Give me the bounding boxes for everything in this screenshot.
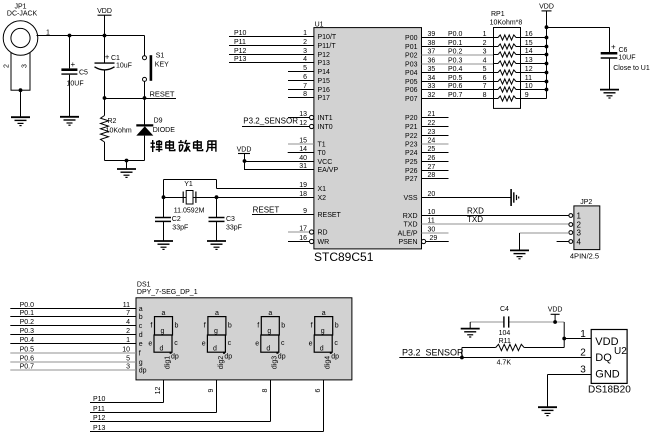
RP1 resistor element 4 <box>494 57 547 66</box>
switch S1 KEY <box>143 55 151 81</box>
U1 pin 32 (P07) <box>405 92 493 103</box>
JP2 pin 4 <box>569 237 582 246</box>
wire to S1 <box>144 36 146 56</box>
svg-text:38: 38 <box>428 40 436 47</box>
svg-text:PSEN: PSEN <box>398 239 417 246</box>
svg-text:b: b <box>139 314 143 321</box>
svg-text:32: 32 <box>428 92 436 99</box>
svg-text:RESET: RESET <box>150 90 175 99</box>
svg-text:22: 22 <box>428 120 436 127</box>
svg-text:15: 15 <box>525 40 533 47</box>
svg-text:P27: P27 <box>405 176 418 183</box>
U1 pin 9 (RESET) <box>252 206 342 219</box>
svg-text:+: + <box>71 60 76 69</box>
svg-text:DPY_7-SEG_DP_1: DPY_7-SEG_DP_1 <box>137 289 198 296</box>
svg-text:14: 14 <box>299 146 307 153</box>
svg-text:18: 18 <box>299 191 307 198</box>
JP2 pin 2 <box>569 220 582 229</box>
svg-text:3: 3 <box>577 228 582 237</box>
svg-text:P0.4: P0.4 <box>448 66 463 73</box>
svg-text:DS18B20: DS18B20 <box>588 384 631 395</box>
svg-text:P13: P13 <box>234 56 247 63</box>
junction VDD / C4 wire <box>553 320 557 324</box>
DS1 pin 10 (segment f) <box>10 346 140 357</box>
svg-text:P0.5: P0.5 <box>20 347 35 354</box>
svg-text:24: 24 <box>428 137 436 144</box>
svg-text:P0.6: P0.6 <box>20 356 35 363</box>
svg-text:c: c <box>334 340 338 347</box>
U1 pin 1 (P10/T) <box>229 30 337 41</box>
U1 pin 40 (VCC) <box>244 155 332 166</box>
svg-text:d: d <box>139 332 143 339</box>
wire net VDD-in from JP1 pin1 <box>37 35 145 37</box>
svg-text:12: 12 <box>299 120 307 127</box>
U1 pin 28 (P27) <box>405 172 448 183</box>
VDD power symbol (top left) <box>97 8 112 15</box>
svg-text:P22: P22 <box>405 133 418 140</box>
svg-text:10: 10 <box>428 209 436 216</box>
wire VDD bus (RP1) <box>546 11 548 99</box>
U1 pin 24 (P23) <box>405 137 448 148</box>
svg-text:dig2: dig2 <box>218 356 225 369</box>
svg-text:P01: P01 <box>405 44 418 51</box>
svg-text:6: 6 <box>303 74 307 81</box>
svg-text:1: 1 <box>483 31 487 38</box>
svg-text:31: 31 <box>299 163 307 170</box>
svg-text:VDD: VDD <box>237 147 252 154</box>
svg-text:RESET: RESET <box>253 206 280 215</box>
ground (C4) <box>461 329 480 337</box>
U1 pin 18 (X2) <box>299 191 326 202</box>
ground (JP2 pin3) <box>510 250 529 258</box>
RP1 resistor element 7 <box>494 83 547 92</box>
DS1 pin 11 (segment a) <box>10 302 142 313</box>
svg-text:dig4: dig4 <box>325 356 332 369</box>
display DS1 body <box>136 298 352 380</box>
svg-text:4PIN/2.5: 4PIN/2.5 <box>570 251 599 260</box>
svg-text:14: 14 <box>525 48 533 55</box>
svg-text:S1: S1 <box>156 53 165 60</box>
DC jack JP1 symbol <box>3 21 38 91</box>
svg-text:C4: C4 <box>500 306 509 313</box>
svg-text:104: 104 <box>499 330 511 337</box>
svg-text:9: 9 <box>525 92 529 99</box>
U1 pin 35 (P04) <box>405 66 493 77</box>
RP1 resistor element 1 <box>494 31 547 40</box>
wire VDD corner to pin1/R11 <box>563 322 565 348</box>
svg-text:DC-JACK: DC-JACK <box>7 11 38 18</box>
U1 pin 4 (P13) <box>229 56 330 67</box>
svg-text:C2: C2 <box>172 216 181 223</box>
connector JP2 body <box>574 206 600 250</box>
svg-text:dp: dp <box>139 368 147 375</box>
svg-text:10: 10 <box>122 346 130 353</box>
capacitor C1 (polarized 10uF) <box>95 63 115 70</box>
svg-text:INT1: INT1 <box>318 115 333 122</box>
junction RP1 pin 16 to VDD bus <box>545 36 549 40</box>
U1 pin 23 (P22) <box>405 129 448 140</box>
junction at JP1 barrel bottom <box>19 88 23 92</box>
wire C6 to ground <box>609 58 611 90</box>
svg-text:b: b <box>335 323 339 330</box>
svg-text:39: 39 <box>428 31 436 38</box>
IC U1 STC89C51 body <box>314 28 422 249</box>
ground (R2/D9) <box>117 169 136 177</box>
svg-text:3: 3 <box>126 363 130 370</box>
svg-text:U2: U2 <box>614 346 627 357</box>
svg-text:3: 3 <box>303 48 307 55</box>
wire to C6 <box>609 27 611 52</box>
svg-text:C6: C6 <box>619 47 628 54</box>
svg-text:c: c <box>228 340 232 347</box>
junction RP1 pin 11 to VDD bus <box>545 80 549 84</box>
junction pin1 branch <box>562 337 566 341</box>
wire to C2 <box>163 197 165 217</box>
svg-text:5: 5 <box>303 65 307 72</box>
resistor R2 10Kohm <box>101 98 109 161</box>
junction C5 branch <box>68 34 72 38</box>
DS1 digit pin 6 wire to P13 <box>90 380 324 432</box>
svg-text:P02: P02 <box>405 53 418 60</box>
svg-text:GND: GND <box>595 369 620 381</box>
U1 pin 29 (PSEN) <box>398 235 448 246</box>
resistor R11 4.7K <box>462 344 564 350</box>
wire pin18 X2 / crystal <box>164 197 314 199</box>
ground (DS18B20) <box>538 407 557 415</box>
svg-text:4: 4 <box>303 56 307 63</box>
svg-text:P0.2: P0.2 <box>448 49 463 56</box>
svg-text:d: d <box>320 345 324 352</box>
DS1 pin 4 (segment c) <box>10 319 142 330</box>
U1 pin 36 (P03) <box>405 57 493 68</box>
DS1 digit pin 9 wire to P11 <box>90 380 217 413</box>
svg-text:Close to U1: Close to U1 <box>613 65 650 72</box>
U1 pin 31 (EA/VP) <box>244 163 338 174</box>
svg-text:P3.2_SENSOR: P3.2_SENSOR <box>402 347 464 357</box>
U1 pin 34 (P05) <box>405 75 493 86</box>
crystal Y1 11.0592M <box>183 191 196 205</box>
U1 pin 15 (T1) <box>288 137 326 148</box>
svg-text:d: d <box>160 345 164 352</box>
svg-text:P0.7: P0.7 <box>20 364 35 371</box>
svg-text:DIODE: DIODE <box>153 127 176 134</box>
svg-text:ALE/P: ALE/P <box>398 231 418 238</box>
RP1 resistor element 2 <box>494 40 547 49</box>
svg-text:16: 16 <box>525 31 533 38</box>
svg-text:25: 25 <box>428 146 436 153</box>
svg-text:4.7K: 4.7K <box>497 360 512 367</box>
wire to C3 <box>216 197 218 217</box>
svg-text:VDD: VDD <box>97 8 112 15</box>
svg-text:3: 3 <box>580 364 586 375</box>
svg-text:d: d <box>213 345 217 352</box>
svg-text:b: b <box>228 323 232 330</box>
wire to ground <box>126 161 128 170</box>
svg-text:dp: dp <box>224 353 232 360</box>
svg-text:6: 6 <box>483 75 487 82</box>
svg-text:33: 33 <box>428 83 436 90</box>
svg-text:g: g <box>139 360 143 367</box>
svg-text:33pF: 33pF <box>226 225 242 232</box>
DS1 digit dig2 graphic <box>202 310 232 369</box>
junction VDD/C1 branch <box>103 34 107 38</box>
RP1 resistor element 3 <box>494 48 547 57</box>
svg-text:P24: P24 <box>405 150 418 157</box>
wire C1 to RESET net <box>104 71 106 99</box>
junction RESET/S1/D9 <box>143 96 147 100</box>
svg-text:R11: R11 <box>499 338 511 345</box>
svg-text:C5: C5 <box>79 70 88 77</box>
svg-text:P05: P05 <box>405 79 418 86</box>
U1 pin 37 (P02) <box>405 48 493 59</box>
svg-text:11: 11 <box>428 217 435 224</box>
svg-text:P11: P11 <box>234 39 246 46</box>
DS1 pin 2 (segment d) <box>10 328 142 339</box>
ground (C2) <box>154 241 173 249</box>
DS1 pin 7 (segment b) <box>10 310 142 321</box>
svg-text:28: 28 <box>428 172 436 179</box>
U1 pin 16 (WR) <box>288 235 329 246</box>
RP1 resistor element 8 <box>494 92 547 101</box>
svg-text:27: 27 <box>428 164 436 171</box>
U1 pin 10 (RXD) <box>403 206 569 220</box>
svg-text:1: 1 <box>580 329 586 340</box>
svg-text:d: d <box>266 345 270 352</box>
JP2 pin 3 <box>569 228 582 237</box>
svg-text:+: + <box>611 43 616 52</box>
U1 pin 14 (T0) <box>288 146 326 157</box>
svg-text:c: c <box>139 323 143 330</box>
svg-text:11: 11 <box>123 302 130 309</box>
wire DS18B20 pin3 GND <box>548 375 592 408</box>
svg-text:P0.0: P0.0 <box>448 31 463 38</box>
junction VDD bus / C6 branch <box>545 25 549 29</box>
wire VDD stub <box>104 15 106 35</box>
junction RP1 pin 12 to VDD bus <box>545 71 549 75</box>
svg-text:33pF: 33pF <box>172 225 188 232</box>
svg-text:P14: P14 <box>318 69 331 76</box>
svg-text:P12: P12 <box>234 48 247 55</box>
U1 pin 30 (ALE/P) <box>398 226 449 237</box>
svg-text:P13: P13 <box>93 425 106 432</box>
svg-text:10uF: 10uF <box>116 63 132 70</box>
svg-text:a: a <box>139 306 143 313</box>
svg-text:VCC: VCC <box>318 159 333 166</box>
svg-text:30: 30 <box>428 226 436 233</box>
svg-text:EA/VP: EA/VP <box>318 167 339 174</box>
wire X1 over-route <box>164 180 217 198</box>
power VDD symbol (U1 VCC/EA) <box>237 147 252 170</box>
svg-text:TXD: TXD <box>404 222 418 229</box>
svg-text:2: 2 <box>483 40 487 47</box>
svg-text:17: 17 <box>299 225 307 232</box>
svg-text:X1: X1 <box>318 186 327 193</box>
VDD power symbol (top right) <box>539 4 554 11</box>
wire C2 to ground <box>163 221 165 241</box>
svg-text:P0.3: P0.3 <box>20 328 35 335</box>
svg-text:20: 20 <box>428 191 436 198</box>
svg-text:TXD: TXD <box>467 215 483 224</box>
RP1 resistor element 5 <box>494 66 547 75</box>
U1 pin 27 (P26) <box>405 164 448 175</box>
svg-text:34: 34 <box>428 75 436 82</box>
svg-text:P0.1: P0.1 <box>20 310 35 317</box>
wire VDD to C6 <box>547 27 610 29</box>
svg-text:2: 2 <box>580 348 586 359</box>
svg-text:VDD: VDD <box>548 306 563 313</box>
svg-text:dp: dp <box>331 353 339 360</box>
svg-text:g: g <box>161 328 165 335</box>
U1 pin 26 (P25) <box>405 155 448 166</box>
junction RP1 pin 10 to VDD bus <box>545 88 549 92</box>
svg-text:+: + <box>105 53 110 62</box>
svg-text:P0.4: P0.4 <box>20 337 35 344</box>
svg-text:11: 11 <box>525 75 532 82</box>
svg-text:P0.2: P0.2 <box>20 319 35 326</box>
JP2 pin 1 <box>569 211 582 220</box>
svg-text:f: f <box>257 322 259 329</box>
annotation text 掉电放电用 (hand-drawn strokes) <box>151 140 216 152</box>
svg-text:f: f <box>150 322 152 329</box>
DS1 pin 3 (segment dp) <box>10 363 146 374</box>
svg-text:b: b <box>175 323 179 330</box>
U1 pin 19 (X1) <box>299 182 326 193</box>
svg-text:P17: P17 <box>318 95 331 102</box>
U1 pin 25 (P24) <box>405 146 448 157</box>
junction crystal left / C2 <box>162 195 166 199</box>
svg-text:P00: P00 <box>405 35 418 42</box>
svg-text:P0.7: P0.7 <box>448 92 463 99</box>
svg-text:X2: X2 <box>318 195 327 202</box>
svg-text:1: 1 <box>577 211 582 220</box>
svg-text:e: e <box>255 340 259 347</box>
svg-text:6: 6 <box>315 388 322 392</box>
svg-text:5: 5 <box>483 66 487 73</box>
junction RESET/C1/R2 <box>103 96 107 100</box>
svg-text:P11: P11 <box>93 406 105 413</box>
svg-text:36: 36 <box>428 57 436 64</box>
svg-text:3: 3 <box>22 64 29 68</box>
svg-text:P0.0: P0.0 <box>20 302 35 309</box>
svg-text:P20: P20 <box>405 115 418 122</box>
svg-text:P12: P12 <box>93 415 106 422</box>
capacitor C6 10UF (electrolytic) <box>601 52 618 58</box>
svg-text:c: c <box>174 340 178 347</box>
svg-text:10Kohm: 10Kohm <box>106 127 132 134</box>
svg-text:C1: C1 <box>111 55 120 62</box>
DS1 pin 5 (segment g) <box>10 355 142 366</box>
svg-text:RESET: RESET <box>318 212 342 219</box>
svg-text:35: 35 <box>428 66 436 73</box>
DS1 digit pin 12 wire to P10 <box>90 380 164 403</box>
svg-text:P15: P15 <box>318 78 331 85</box>
U1 pin 6 (P15) <box>288 74 330 85</box>
svg-text:19: 19 <box>299 182 307 189</box>
svg-text:26: 26 <box>428 155 436 162</box>
svg-text:9: 9 <box>208 388 215 392</box>
svg-text:T1: T1 <box>318 142 326 149</box>
DS1 pin 1 (segment e) <box>10 337 142 348</box>
svg-text:P13: P13 <box>318 60 331 67</box>
U1 pin 13 (INT1) <box>288 111 333 122</box>
svg-text:3: 3 <box>483 48 487 55</box>
svg-text:R2: R2 <box>108 118 117 125</box>
U1 pin 17 (RD) <box>288 225 328 236</box>
svg-text:P03: P03 <box>405 62 418 69</box>
svg-text:15: 15 <box>299 137 307 144</box>
svg-text:g: g <box>321 328 325 335</box>
wire to C5 <box>69 36 71 69</box>
svg-text:13: 13 <box>525 57 533 64</box>
ground (C3) <box>207 241 226 249</box>
svg-text:U1: U1 <box>315 21 324 28</box>
U1 pin 8 (P17) <box>288 91 330 102</box>
U1 pin 39 (P00) <box>405 31 493 42</box>
svg-text:JP2: JP2 <box>580 199 592 206</box>
wire C3 to ground <box>216 221 218 241</box>
junction ground branch <box>125 159 129 163</box>
svg-text:13: 13 <box>299 111 307 118</box>
svg-text:P3.2_SENSOR: P3.2_SENSOR <box>243 117 298 126</box>
diode D9 <box>136 98 153 161</box>
svg-text:21: 21 <box>428 111 436 118</box>
DS1 digit pin 8 wire to P12 <box>90 380 271 422</box>
wire pin19 X1 <box>217 188 314 190</box>
wire R2/D9 to ground <box>105 160 145 162</box>
junction RP1 pin 15 to VDD bus <box>545 45 549 49</box>
svg-text:4: 4 <box>483 57 487 64</box>
svg-text:a: a <box>162 310 166 317</box>
svg-text:INT0: INT0 <box>318 124 333 131</box>
svg-text:VSS: VSS <box>403 195 417 202</box>
svg-text:P26: P26 <box>405 168 418 175</box>
svg-text:a: a <box>322 310 326 317</box>
ground (VSS, rotated) <box>511 189 519 206</box>
svg-text:P21: P21 <box>405 124 418 131</box>
svg-text:10: 10 <box>525 83 533 90</box>
svg-text:5: 5 <box>126 355 130 362</box>
svg-text:40: 40 <box>299 155 307 162</box>
U1 pin 5 (P14) <box>288 65 330 76</box>
svg-text:c: c <box>281 340 285 347</box>
sensor U2 DS18B20 body <box>591 330 627 384</box>
svg-text:P11/T: P11/T <box>318 43 337 50</box>
svg-text:T0: T0 <box>318 150 326 157</box>
U1 pin 11 (TXD) <box>404 215 569 229</box>
DS1 digit dig1 graphic <box>148 310 178 369</box>
svg-text:dig3: dig3 <box>271 356 278 369</box>
svg-text:e: e <box>139 341 143 348</box>
ground (C6) <box>600 90 619 98</box>
ground (JP1) <box>11 117 30 125</box>
svg-text:WR: WR <box>318 239 330 246</box>
wire DS18B20 pin1 VDD <box>564 338 591 340</box>
U1 pin 20 (VSS) <box>403 191 511 202</box>
wire JP2 pin4 stub <box>557 241 569 243</box>
junction RP1 pin 13 to VDD bus <box>545 62 549 66</box>
svg-text:P0.1: P0.1 <box>448 40 463 47</box>
junction crystal right / C3 <box>215 195 219 199</box>
svg-text:DS1: DS1 <box>137 281 151 288</box>
svg-text:P0.3: P0.3 <box>448 58 463 65</box>
svg-text:RP1: RP1 <box>491 11 505 18</box>
svg-text:11.0592M: 11.0592M <box>174 207 205 214</box>
svg-text:g: g <box>214 328 218 335</box>
svg-text:2: 2 <box>303 39 307 46</box>
svg-text:4: 4 <box>126 319 130 326</box>
svg-text:7: 7 <box>483 83 487 90</box>
svg-text:a: a <box>268 310 272 317</box>
